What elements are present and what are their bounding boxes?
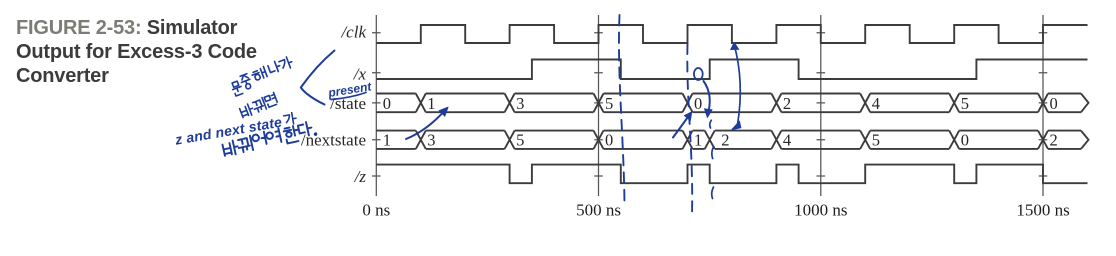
svg-text:2: 2 [1050, 131, 1058, 150]
gridline 1500ns [1042, 15, 1044, 196]
/state bus values [383, 94, 1058, 113]
gridline 500ns [598, 15, 600, 196]
handwritten 0 circled above state bus [694, 68, 703, 80]
svg-text:/nextstate: /nextstate [301, 131, 366, 150]
gridline 1000ns [820, 15, 822, 196]
flourish under present [331, 93, 366, 100]
svg-text:0: 0 [383, 94, 391, 113]
handwritten word "present" [326, 79, 373, 100]
svg-text:0: 0 [961, 131, 969, 150]
svg-text:0: 0 [1050, 94, 1058, 113]
signal /clk waveform [376, 25, 1087, 43]
blue arrow pointing to state value 1 [406, 109, 447, 140]
svg-text:0: 0 [605, 131, 613, 150]
svg-text:5: 5 [605, 94, 613, 113]
arrow from circled 0 down toward nextstate [704, 81, 710, 116]
bus /state waveform [376, 94, 1088, 113]
svg-text:0: 0 [694, 94, 702, 113]
small pen marks near nextstate 1/2 crossing [710, 120, 714, 158]
svg-text:1: 1 [383, 131, 391, 150]
svg-text:1: 1 [427, 94, 435, 113]
svg-text:2: 2 [721, 131, 729, 150]
svg-text:4: 4 [872, 94, 880, 113]
handwritten Korean line 2 "바뀌면" [239, 92, 279, 118]
signal /z waveform [376, 165, 1087, 184]
figure caption [16, 16, 276, 89]
svg-text:5: 5 [872, 131, 880, 150]
svg-text:3: 3 [427, 131, 435, 150]
arrow pointing up-right at state 0 crossing [673, 114, 691, 138]
handwritten Korean line 4 "바뀌어야 한다." [222, 120, 317, 157]
dashed vertical line at 550 ns (/x falling edge) [619, 15, 625, 206]
svg-text:500 ns: 500 ns [576, 201, 621, 220]
handwritten Korean line 1 "문중 하나가" [229, 56, 297, 97]
svg-text:1: 1 [694, 131, 702, 150]
svg-text:1500 ns: 1500 ns [1016, 201, 1069, 220]
svg-text:/clk: /clk [340, 22, 366, 41]
long curved double arrow from clk down to nextstate 2 [734, 44, 740, 125]
extra dash mark below nextstate [712, 187, 714, 199]
svg-text:5: 5 [516, 131, 524, 150]
svg-text:5: 5 [961, 94, 969, 113]
dashed vertical line at 700 ns clock edge [687, 44, 692, 215]
angle brace pointing at Korean note [301, 51, 335, 105]
/nextstate bus values [383, 131, 1058, 150]
signal /x waveform [376, 60, 1087, 80]
bus /nextstate waveform [376, 131, 1088, 149]
gridline 0ns axis [375, 15, 377, 196]
svg-text:0 ns: 0 ns [362, 201, 390, 220]
svg-text:1000 ns: 1000 ns [794, 201, 847, 220]
svg-text:/z: /z [354, 167, 367, 186]
handwritten line 3 "z and next state가" [173, 111, 298, 148]
svg-text:3: 3 [516, 94, 524, 113]
svg-text:2: 2 [783, 94, 791, 113]
svg-text:4: 4 [783, 131, 791, 150]
axis tick marks at signal mid-levels [372, 33, 1047, 176]
